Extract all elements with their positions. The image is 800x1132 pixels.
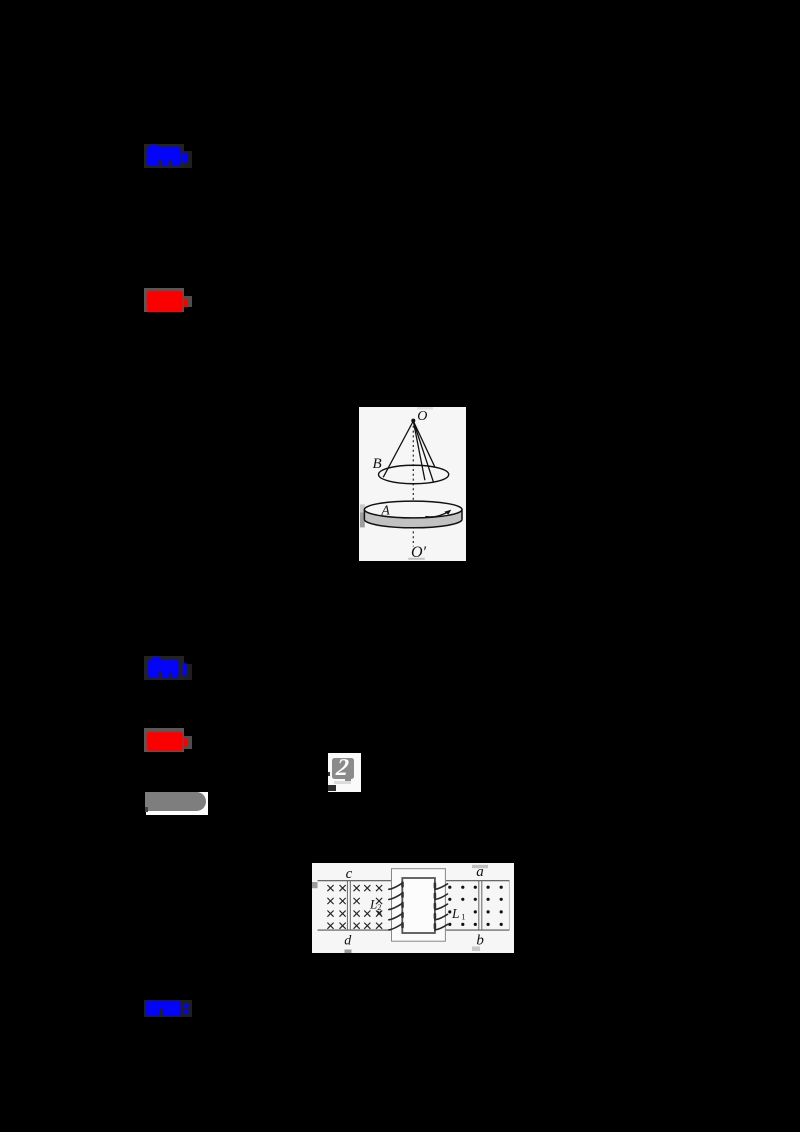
apex point O dot (411, 419, 415, 423)
disk bottom ellipse lower arc (364, 519, 462, 527)
rotation arrow head (444, 510, 451, 515)
figure2 smudge below b (472, 947, 480, 952)
right rail ab line 1 (478, 881, 480, 930)
label blue 2 texture notches (159, 672, 162, 680)
svg-text:b: b (476, 933, 484, 949)
example-2 icon dark mark left (328, 772, 331, 776)
example-2 icon white card (328, 753, 361, 793)
figure 1: conical pendulum over rotating disk (359, 407, 466, 561)
label blue 2 colon box (184, 664, 192, 680)
figure1 white background (359, 407, 466, 561)
label red 1 colon (184, 299, 188, 307)
label blue 2 colon (183, 663, 187, 676)
figure1 left gray bar upper (360, 504, 365, 512)
top boundary line left segment (318, 880, 392, 882)
cross under L2 (377, 911, 381, 915)
left rail cd line 1 (346, 881, 348, 930)
right rail ab line 2 (481, 881, 483, 930)
label red 2 colon (184, 738, 188, 747)
label blue 3 colon dot 2 (184, 1010, 189, 1015)
svg-text:B: B (373, 456, 382, 472)
top boundary line right segment (446, 880, 509, 882)
bottom boundary line left segment (318, 929, 392, 931)
svg-text:O: O (417, 409, 427, 424)
coil turns left slashes (389, 883, 403, 930)
svg-text:1: 1 (461, 912, 465, 922)
rotation arrow arc (425, 511, 450, 517)
example-2 icon pointer (345, 779, 351, 782)
svg-text:c: c (346, 866, 353, 882)
label red 2 colon box (184, 736, 192, 749)
bottom boundary line right segment (446, 929, 509, 931)
figure2 smudge above a (472, 865, 488, 868)
svg-text:L: L (369, 897, 377, 912)
label blue 1 texture notches (159, 160, 162, 168)
figure2 smudge below d (345, 950, 352, 954)
disk right side edge (461, 510, 463, 520)
label red 1 text blob (147, 291, 184, 312)
figure2 right faint border (508, 881, 510, 930)
example-2 icon light strip (334, 781, 351, 784)
figure 2: coil on core between field regions (312, 863, 514, 953)
string line 1 (413, 421, 425, 480)
label red 1 colon box (184, 296, 192, 307)
ellipse B (cone base circle) (379, 465, 449, 484)
svg-text:a: a (476, 864, 484, 880)
svg-text:d: d (344, 934, 352, 949)
cone left slant line (383, 421, 413, 477)
example-2 icon dark notch bottom-left (328, 785, 336, 791)
label blue 1 box (144, 144, 184, 168)
figure1 bottom edge smudge (408, 558, 425, 560)
coil turns right slashes (435, 884, 448, 930)
label red 2 text blob (147, 732, 184, 752)
label blue 3 colon dot 1 (184, 1004, 189, 1008)
cone right slant line (413, 421, 434, 467)
gray pill white backing (146, 792, 208, 815)
label blue 2 box (144, 656, 184, 680)
example-2 numeral 2 (330, 755, 356, 779)
svg-text:L: L (451, 906, 460, 921)
figure2 white background (312, 863, 514, 953)
label blue 3 text blob (146, 1001, 181, 1016)
coil outer box (392, 869, 446, 942)
dashed axis OO' (412, 421, 414, 547)
svg-text:A: A (381, 503, 391, 518)
figure1 left gray bar lower (360, 512, 365, 527)
disk left side edge (363, 510, 365, 520)
iron core rectangle (402, 878, 435, 933)
label red 1 box (144, 288, 184, 312)
dot field symbols right region (448, 886, 503, 926)
coil right edge hooks (434, 884, 437, 928)
gray pill (145, 792, 206, 812)
gray pill dark notch (145, 807, 148, 812)
example-2 icon gray square (332, 758, 354, 779)
label blue 3 texture notch (160, 1009, 163, 1017)
label blue 3 box (144, 1000, 192, 1017)
cross field symbols left region (327, 885, 382, 929)
disk side wall (gray band) (364, 510, 462, 528)
label blue 1 text blob (147, 147, 181, 166)
figure1 top edge smudge (417, 407, 433, 410)
disk top ellipse (364, 501, 462, 518)
figure2 smudge left edge (312, 882, 318, 888)
coil left edge hooks (401, 883, 404, 927)
label blue 1 colon (182, 153, 188, 164)
label blue 2 text blob (148, 660, 180, 679)
label red 2 box (144, 728, 184, 752)
string line 2 (413, 421, 433, 483)
label blue 1 colon box (184, 151, 192, 168)
left rail cd line 2 (349, 881, 351, 930)
